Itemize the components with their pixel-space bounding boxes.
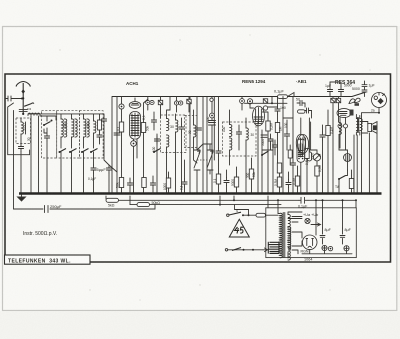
wires: [338, 135, 340, 151]
diagonal wire at osc: [197, 144, 212, 150]
cap at 286: [284, 131, 289, 139]
circle symbol: [323, 246, 327, 250]
detector cap x277: [275, 106, 280, 114]
vertical link x278 down to transformer: [277, 200, 279, 213]
transformer top wire: [278, 213, 280, 215]
line1 continues: [119, 199, 357, 201]
speckle group: [59, 34, 370, 300]
switch square on bus b: [158, 100, 162, 104]
selector arrow: [263, 248, 268, 252]
dots: [166, 193, 168, 195]
cap2 bottom circle: [344, 246, 349, 251]
cap row topright b: [338, 87, 343, 95]
wires: [169, 160, 185, 194]
ground bus: [19, 192, 382, 194]
wires transformer to speaker: [356, 115, 367, 136]
dot: [368, 193, 370, 195]
box2 coil b: [72, 119, 74, 137]
box2 switch a: [59, 149, 67, 154]
psu internal bottom wire: [302, 250, 352, 254]
REN5 side pin circle: [263, 106, 267, 110]
filter cap 1: [320, 228, 325, 244]
resistor x290 small: [288, 150, 292, 158]
pot wires: [310, 150, 318, 166]
pot arrow: [315, 154, 320, 159]
wire down to ground bus: [20, 152, 22, 194]
cap plates x197: [194, 150, 200, 170]
wires tube to bus: [134, 139, 138, 194]
speaker rect: [368, 124, 372, 132]
comb left bar: [267, 242, 269, 254]
grid node circle: [210, 113, 215, 118]
circle b2: [179, 101, 183, 105]
wires: [211, 97, 213, 194]
band coil dashed box 2: [57, 111, 80, 158]
wires: [297, 166, 299, 194]
diag second row left: [109, 165, 117, 172]
IF2 primary coil lower: [230, 138, 232, 150]
wires: [153, 112, 155, 130]
tube socket top view circle: [372, 93, 387, 108]
drop wire x38.5: [38, 116, 40, 194]
wire into coil box: [20, 118, 22, 144]
cap on x293: [290, 160, 295, 168]
cap cluster b: [272, 142, 277, 150]
box3 trimmer cap: [97, 132, 102, 140]
dot on antenna lead: [21, 98, 23, 100]
diagonal wing coil a: [349, 99, 355, 104]
volume pot circle: [313, 154, 320, 161]
paper noise: [0, 0, 1, 1]
junction circle on bus x242: [240, 99, 245, 104]
drop wire x273: [272, 140, 274, 194]
dot: [181, 193, 183, 195]
switch line to fuse: [243, 214, 256, 216]
AB1 anode blob: [350, 110, 354, 116]
REN5 top grid circle: [247, 99, 252, 104]
switch contact dot box1: [51, 120, 53, 122]
horizontal link y150 detector: [262, 149, 273, 151]
anode resistor x268: [266, 121, 270, 131]
dot: [30, 193, 32, 195]
output transformer primary winding: [356, 118, 358, 130]
dot: [111, 193, 113, 195]
dot: [202, 193, 204, 195]
IF transformer 1 dashed box: [161, 115, 187, 153]
dot: [316, 193, 318, 195]
wires x277: [277, 97, 279, 164]
primary winding lower: [280, 235, 283, 257]
box3 drop wires: [84, 140, 100, 194]
glyph 5: [240, 227, 243, 233]
oscillator dashed box: [185, 116, 198, 148]
voltage selector line: [228, 249, 263, 251]
wires: [218, 160, 220, 194]
AB1 pin drop wires: [340, 131, 348, 175]
psu vertical dots: [315, 199, 317, 201]
horizontal link y118: [283, 117, 293, 119]
transformer core lines: [358, 118, 359, 133]
resistor wires: [309, 118, 310, 152]
drop wire x293: [292, 97, 294, 194]
AVC line wires: [245, 97, 288, 104]
bus contact small circle x211: [210, 98, 213, 101]
dots: [60, 193, 62, 195]
dot: [93, 193, 95, 195]
second row cap x130: [127, 180, 132, 188]
socket stem down: [362, 108, 380, 113]
link to box3: [103, 114, 105, 116]
second row cap x153: [150, 180, 155, 188]
switch square pair on bus: [331, 98, 335, 102]
cap x219 upper: [216, 148, 221, 156]
wires: [108, 165, 110, 194]
REN5 tube envelope: [253, 106, 265, 126]
wires: [194, 110, 198, 163]
secondary winding top: [288, 214, 290, 226]
drop wire box1 to bus: [46, 158, 48, 194]
small cap near x158: [151, 117, 156, 125]
second row resistor x168: [166, 178, 170, 188]
RES tube real: [297, 135, 308, 154]
pin circle b: [344, 124, 348, 128]
second square: [336, 98, 340, 102]
pin wires: [340, 118, 346, 132]
antenna mast: [22, 83, 24, 114]
box3 coil a: [84, 119, 86, 137]
dot center: [241, 100, 243, 102]
page scan border right: [396, 26, 398, 311]
box2 coil b2: [75, 119, 77, 137]
box2 coil a: [61, 119, 63, 137]
cap cluster near detector a: [268, 136, 273, 144]
selector open circle: [225, 249, 227, 251]
socket tick: [379, 93, 385, 96]
second cap: [304, 108, 312, 113]
horizontal antenna coupling coil: [28, 113, 40, 115]
dot: [282, 193, 284, 195]
wires: [316, 176, 318, 194]
circle dots: [147, 102, 148, 103]
secondary winding mid: [288, 227, 291, 249]
capacitor below antenna coil box: [18, 144, 23, 152]
dot: [236, 193, 238, 195]
mains switch L-link: [235, 205, 249, 216]
box2 drop wires: [61, 152, 72, 194]
bus contact circle pair a: [146, 100, 150, 104]
cap row topright a: [327, 87, 332, 95]
dot: [327, 193, 329, 195]
wires around anode resistor: [143, 103, 145, 194]
antenna series capacitor wide plates: [19, 110, 27, 112]
dot: [257, 193, 259, 195]
left area small diagonal: [104, 125, 109, 165]
selector dots: [243, 249, 245, 251]
bus square x265: [263, 99, 267, 103]
antenna coil winding: [21, 122, 23, 134]
mains switch open circle: [227, 214, 229, 216]
rectifier tube RGN: [302, 235, 317, 250]
dot: [376, 193, 378, 195]
wires REN5: [250, 104, 268, 194]
cathode resistor beside tube: [307, 152, 311, 161]
wire along box tops: [28, 113, 103, 115]
dot: [218, 193, 220, 195]
box3 switch a: [81, 149, 89, 154]
cap x322.5: [320, 132, 325, 140]
power transformer primary winding: [280, 213, 283, 235]
diagonal wing coil b: [355, 98, 361, 102]
extra drop x157: [156, 134, 158, 194]
ACH1 bottom pin circle: [131, 141, 137, 147]
second row cap pair x226: [224, 178, 229, 186]
IF1 trimmer cap: [179, 124, 184, 132]
second row resistor x218: [216, 174, 220, 184]
secondary winding bottom: [288, 248, 290, 260]
grid coil x339: [339, 122, 341, 134]
box3 switch b: [90, 149, 98, 154]
AB1 internal bars: [340, 112, 348, 116]
rectifier filament: [308, 246, 311, 247]
drop wire x207: [206, 97, 208, 194]
box2 wires: [61, 114, 72, 148]
osc coil x193: [194, 125, 196, 137]
dot: [38, 193, 40, 195]
AB1 pin circles below: [338, 124, 342, 128]
dot in circle: [330, 248, 332, 250]
wires: [251, 158, 253, 194]
dot: [251, 193, 253, 195]
wires: [176, 97, 178, 113]
stacked caps left of socket: [362, 81, 367, 97]
resistor on x121.5: [119, 122, 123, 132]
drop wire x197: [196, 97, 198, 194]
right drop wire x377: [376, 134, 378, 194]
socket pin circle: [374, 96, 377, 99]
vertical link x234: [233, 196, 235, 200]
arrester cap: [8, 96, 15, 101]
wires: [288, 172, 290, 194]
output tube envelope (gourd shape): [296, 135, 305, 163]
grid capacitor plates x117: [114, 133, 120, 135]
wing connector rect: [355, 103, 360, 106]
rounded resistor on line1: [106, 198, 119, 202]
grid dot: [249, 100, 251, 102]
mains fuse: [256, 213, 266, 217]
dot: [279, 193, 281, 195]
wires tube: [301, 103, 312, 194]
second gang tuning cap: [207, 145, 213, 174]
top fuse resistor near AB1: [278, 95, 288, 99]
dot: [83, 193, 85, 195]
capacitor 5000 on bottom wire: [45, 206, 49, 213]
drop wire x31: [30, 116, 32, 194]
second row left small cap x109: [106, 165, 111, 173]
resistor x351.5 row2: [349, 179, 353, 189]
cap x199 small: [197, 128, 202, 130]
IF2 wires: [230, 110, 247, 165]
circle sym: [345, 247, 349, 251]
psu verticals from line1: [268, 196, 356, 235]
IF1 primary upper coil: [167, 118, 169, 130]
second row comp x297: [295, 176, 299, 186]
node dot: [121, 106, 123, 108]
tube ACH1 envelope: [130, 112, 141, 140]
wires: [236, 167, 238, 194]
IF2 trimmer cap: [236, 129, 241, 137]
dot: [206, 193, 208, 195]
cluster wires: [271, 134, 276, 155]
left L wire to switch: [8, 103, 30, 155]
wires: [279, 187, 281, 194]
long left wire down to bottom wire: [13, 111, 15, 210]
antenna coil core line: [25, 122, 27, 134]
grid caps stack: [209, 121, 216, 126]
band coil dashed box 3: [80, 111, 104, 158]
wires from squares: [333, 97, 339, 194]
dot: [189, 193, 191, 195]
arrow right: [311, 223, 321, 226]
drop wire x190: [189, 97, 191, 194]
IF1 primary lower coil: [167, 135, 169, 147]
tube electrodes: [298, 143, 303, 157]
wires: [267, 131, 269, 194]
dot: [267, 193, 269, 195]
detector diode cap x293: [297, 100, 305, 105]
drop wire x117: [116, 97, 118, 194]
extra cap x157: [154, 136, 159, 144]
right drop wire x369.4: [368, 133, 370, 194]
schematic border frame: [5, 74, 391, 262]
lead-in insulator blob: [21, 89, 25, 94]
diag wire ACH1 anode: [144, 99, 149, 103]
switch in box 1: [43, 122, 51, 127]
IF2 secondary coil: [246, 128, 248, 140]
wire: [241, 97, 243, 111]
dot: [322, 193, 324, 195]
page scan border left: [2, 26, 4, 311]
wires: [322, 125, 324, 194]
second row cap x288: [286, 180, 291, 188]
second circle: [328, 246, 332, 250]
dot: [116, 193, 118, 195]
antenna coil dashed box: [16, 118, 31, 144]
small comp left x104: [101, 116, 106, 124]
triangle glyph 45: [235, 227, 239, 234]
junction dots line1: [233, 199, 235, 201]
bypass caps x264: [261, 135, 267, 137]
top bus wire: [112, 92, 366, 97]
dot: [156, 193, 158, 195]
dot: [226, 193, 228, 195]
second row resistor x144: [142, 178, 146, 188]
wire: [181, 118, 183, 194]
tube wavy top: [298, 139, 305, 140]
IF transformer 2 dashed box: [223, 122, 257, 156]
circle dots: [176, 102, 177, 103]
dot: [332, 193, 334, 195]
second row resistor x121: [119, 178, 123, 188]
box2 switch b: [69, 149, 77, 154]
chassis wire left drop x112: [111, 97, 113, 194]
second row resistor x251: [249, 169, 253, 179]
page scan border bottom: [2, 310, 397, 312]
wires: [218, 97, 220, 161]
grid cap circle node: [119, 104, 124, 109]
wires: [188, 97, 190, 113]
junction dot line2: [219, 204, 221, 206]
drop wire x262: [261, 130, 263, 194]
drop wire x93.5 with capacitor: [93, 158, 95, 194]
wave band switch dashed box 1: [42, 111, 57, 158]
mast junction dot: [22, 97, 24, 99]
line2 left hook to bus: [129, 196, 131, 205]
top cap bar: [131, 98, 139, 105]
AVC junction dot: [271, 102, 273, 104]
pot resistor: [315, 166, 319, 176]
wires: [286, 120, 288, 150]
variable cap arrow x197: [194, 151, 200, 168]
wire: [147, 97, 149, 111]
ground symbol: [18, 194, 26, 202]
trimmer square x188: [187, 99, 191, 103]
below-bus line 2 with series resistor: [137, 203, 150, 207]
wire coil to band switch boxes: [40, 116, 56, 120]
tube ACH1 top cap ellipse: [129, 102, 141, 109]
wire: [339, 176, 348, 194]
rectifier anodes: [306, 239, 313, 246]
dots: [168, 193, 170, 195]
switch dots: [242, 214, 244, 216]
wires box1: [44, 116, 47, 158]
parallel vertical x214.3: [213, 97, 215, 161]
dot: [196, 193, 198, 195]
filter cap 2: [340, 228, 345, 244]
title box TELEFUNKEN 343 WL: [5, 255, 91, 264]
long parallel drop wires: [354, 113, 362, 194]
PSU box outline: [266, 208, 357, 258]
wires: [279, 173, 281, 177]
anode resistor: [141, 123, 145, 133]
dot: [245, 193, 247, 195]
box3 coil a2: [87, 119, 89, 137]
dot: [351, 193, 353, 195]
bus contact circle pair b: [174, 101, 178, 105]
wire from node: [121, 97, 123, 123]
heater wire sec top to lamp: [288, 212, 302, 228]
wire: [121, 132, 123, 194]
stem dot: [378, 112, 380, 114]
REN5 electrodes: [254, 108, 263, 124]
cap1 bottom circles: [322, 245, 327, 250]
selector comb: [269, 242, 280, 254]
dot: [306, 193, 308, 195]
dot: [338, 193, 340, 195]
AB1 duodiode top view: [337, 108, 351, 117]
junction dot at bus: [20, 193, 22, 195]
box3 wires: [84, 114, 100, 148]
socket diamond: [377, 98, 383, 104]
series cap on line1 right: [299, 197, 308, 203]
wires caps topright: [330, 82, 341, 97]
tube pin dots: [298, 158, 300, 160]
dot: [211, 193, 213, 195]
drop wire x246 lower: [245, 158, 247, 194]
second row cap x184: [182, 179, 187, 187]
second row wires: [129, 178, 131, 194]
dot: [46, 193, 48, 195]
node dot: [211, 115, 213, 117]
